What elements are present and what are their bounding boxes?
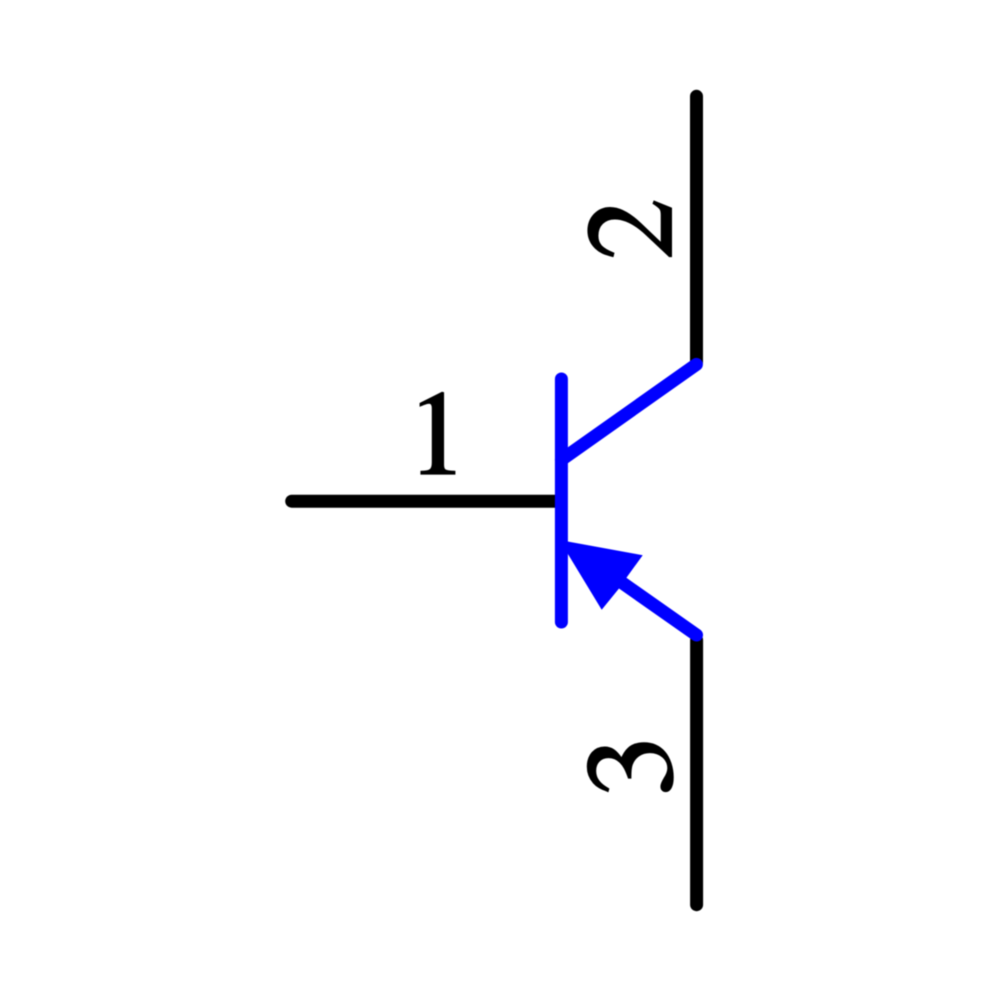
base bar (blue vertical): [555, 379, 568, 622]
pin number 1: [421, 393, 455, 474]
pin 2 wire (collector, top vertical): [690, 96, 703, 362]
collector diagonal (blue): [561, 364, 696, 459]
pin 3 wire (emitter, bottom vertical): [690, 640, 703, 905]
pin number 2 (rotated 90 CCW): [588, 202, 671, 256]
pin 1 wire (base, left horizontal): [292, 495, 556, 508]
pin number 3 (rotated 90 CCW): [588, 743, 673, 791]
emitter diagonal with arrowhead (blue, single path): [559, 540, 703, 642]
